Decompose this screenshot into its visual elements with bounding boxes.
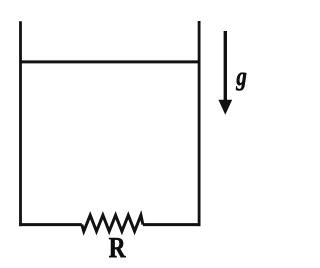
wire: right wall xyxy=(198,21,201,226)
wire: left wall xyxy=(19,21,22,226)
wire: top horizontal line (surface/plate) xyxy=(21,60,200,63)
wire: bottom-left segment xyxy=(19,223,82,226)
resistor R xyxy=(82,215,143,231)
label g xyxy=(236,73,246,91)
arrow g (gravity, pointing down) xyxy=(219,31,231,114)
label R xyxy=(109,238,126,257)
wire: bottom-right segment xyxy=(143,223,201,226)
